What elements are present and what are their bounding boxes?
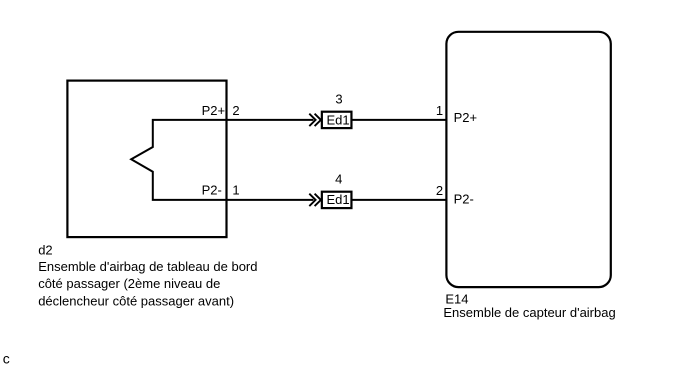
svg-text:3: 3 — [335, 91, 342, 106]
svg-text:P2+: P2+ — [202, 103, 226, 118]
svg-text:déclencheur côté passager avan: déclencheur côté passager avant) — [38, 294, 234, 309]
chevron arrows on wire 1 — [309, 114, 321, 126]
svg-text:Ed1: Ed1 — [327, 192, 350, 207]
svg-text:E14: E14 — [445, 291, 468, 306]
svg-text:1: 1 — [436, 103, 443, 118]
splice Ed1 (upper) — [322, 112, 352, 128]
connector d2 (dashboard airbag assembly box) — [67, 81, 226, 238]
svg-text:Ed1: Ed1 — [327, 112, 350, 127]
svg-text:2: 2 — [232, 103, 239, 118]
chevron arrows on wire 2 — [309, 194, 321, 206]
svg-text:2: 2 — [436, 183, 443, 198]
svg-text:4: 4 — [335, 172, 342, 187]
svg-text:Ensemble de capteur d'airbag: Ensemble de capteur d'airbag — [443, 305, 615, 320]
svg-text:P2-: P2- — [202, 183, 222, 198]
svg-text:1: 1 — [232, 183, 239, 198]
svg-text:côté passager (2ème niveau de: côté passager (2ème niveau de — [38, 276, 220, 291]
splice Ed1 (lower) — [322, 192, 352, 208]
connector E14 (airbag sensor assembly rounded box) — [446, 32, 610, 287]
svg-text:P2-: P2- — [454, 192, 474, 207]
svg-text:P2+: P2+ — [454, 110, 478, 125]
squib S (zigzag element inside d2) with wires to pins 2 and 1 — [131, 120, 313, 200]
wire 1 from Ed1 to E14 pin 1 — [352, 119, 447, 121]
svg-text:d2: d2 — [38, 243, 52, 258]
wire 2 from Ed1 to E14 pin 2 — [352, 199, 447, 201]
svg-text:c: c — [3, 350, 10, 366]
svg-text:Ensemble d'airbag de tableau d: Ensemble d'airbag de tableau de bord — [38, 259, 257, 274]
